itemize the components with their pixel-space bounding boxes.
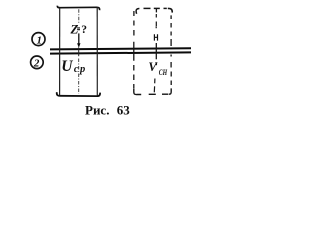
svg-text:Рис. 63: Рис. 63 [85,103,130,118]
svg-text:?: ? [81,24,87,36]
svg-text:V: V [148,60,158,74]
svg-text:U: U [61,58,73,75]
svg-text:2: 2 [33,58,40,70]
svg-text:ср: ср [74,64,85,75]
svg-text:Z: Z [70,21,79,36]
svg-text:1: 1 [37,34,43,46]
svg-text:СН: СН [159,67,168,77]
